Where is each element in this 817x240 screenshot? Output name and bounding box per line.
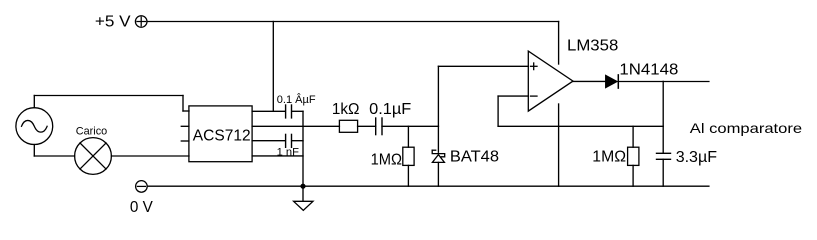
capacitor C2 1nF [286, 134, 292, 147]
wire R3 branch top [632, 126, 634, 147]
wire lamp to ACS712 pin4 [111, 155, 189, 157]
svg-text:Al comparatore: Al comparatore [690, 120, 803, 136]
wire C3 to riser and BAT48 node [382, 125, 438, 127]
svg-text:Carico: Carico [76, 125, 107, 137]
wire BAT48 cathode [437, 126, 439, 152]
resistor R2 1MOhm [403, 147, 414, 165]
node +5V terminal [135, 16, 147, 28]
AC source V1 [16, 108, 53, 145]
wire ACS712 OUT pin to R1 [252, 125, 339, 127]
wire cap ground rail [302, 111, 304, 186]
wire AC source top to ACS712 pin1 horizontal [34, 95, 183, 97]
svg-text:1MΩ: 1MΩ [592, 148, 626, 165]
svg-text:1kΩ: 1kΩ [332, 101, 360, 118]
junction dot at ground rail [300, 184, 305, 189]
wire AC source to lamp [34, 155, 74, 157]
capacitor C4 3.3uF [657, 153, 671, 159]
ACS712 U1 [189, 106, 252, 162]
diode D2 1N4148 [606, 75, 619, 88]
capacitor C1 0.1uF bypass [286, 105, 292, 118]
wire +5V rail [147, 21, 559, 23]
ground [294, 201, 313, 210]
capacitor C3 0.1uF series [376, 118, 382, 135]
wire ground stub [302, 186, 304, 201]
diode D1 BAT48 schottky [432, 150, 445, 162]
wire +5V branch to ACS712 VCC [272, 22, 274, 112]
svg-text:0.1 ÂµF: 0.1 ÂµF [277, 93, 316, 106]
wire ACS712 FILTER pin to C2 [252, 140, 285, 142]
wire feedback left vertical [497, 96, 499, 126]
svg-text:ACS712: ACS712 [193, 128, 251, 145]
svg-text:3.3µF: 3.3µF [676, 149, 718, 166]
wire feedback bottom horizontal [498, 125, 663, 127]
wire R3 to ground rail [632, 165, 634, 186]
wire bypass cap to rail [292, 110, 303, 112]
wire D2 cathode to output node [619, 81, 709, 83]
svg-text:0.1µF: 0.1µF [369, 101, 411, 118]
wire ground rail [147, 185, 709, 187]
wire R2 to ground rail [407, 165, 409, 186]
lamp Carico [75, 138, 112, 175]
wire AC source bottom riser [33, 145, 35, 157]
pin stub ACS712 pin2 [181, 125, 189, 127]
wire ACS712 VCC pin to bypass cap [252, 110, 285, 112]
op-amp U2 LM358 [528, 51, 573, 111]
svg-text:BAT48: BAT48 [450, 149, 499, 166]
resistor R3 1MOhm [628, 147, 639, 165]
wire C4 to ground rail [662, 159, 664, 186]
resistor R1 1kOhm [339, 120, 357, 132]
wire riser from signal node up [437, 66, 439, 126]
svg-text:1N4148: 1N4148 [619, 61, 678, 78]
wire C2 to rail [292, 140, 303, 142]
pin stub ACS712 pin3 [181, 140, 189, 142]
node 0V terminal [136, 181, 148, 193]
wire op-amp V- pin to ground rail [558, 104, 560, 186]
wire pin1 stub [183, 110, 189, 112]
wire AC source top riser [33, 96, 35, 108]
wire step down to pin1 [182, 96, 184, 112]
svg-text:0 V: 0 V [130, 199, 153, 216]
wire to op-amp + input [438, 65, 528, 67]
wire ACS712 GND pin to rail [252, 155, 303, 157]
wire op-amp output to D2 [573, 80, 606, 82]
wire R2 branch top [407, 126, 409, 147]
wire R1 to C3 [358, 125, 376, 127]
wire +5V to op-amp V+ pin [558, 22, 560, 65]
wire op-amp - input [498, 95, 528, 97]
svg-text:LM358: LM358 [567, 38, 618, 55]
svg-text:+5 V: +5 V [95, 13, 131, 30]
wire output node branch down to C4 [662, 81, 664, 153]
svg-text:1MΩ: 1MΩ [371, 152, 402, 169]
wire BAT48 anode to ground rail [437, 162, 439, 186]
